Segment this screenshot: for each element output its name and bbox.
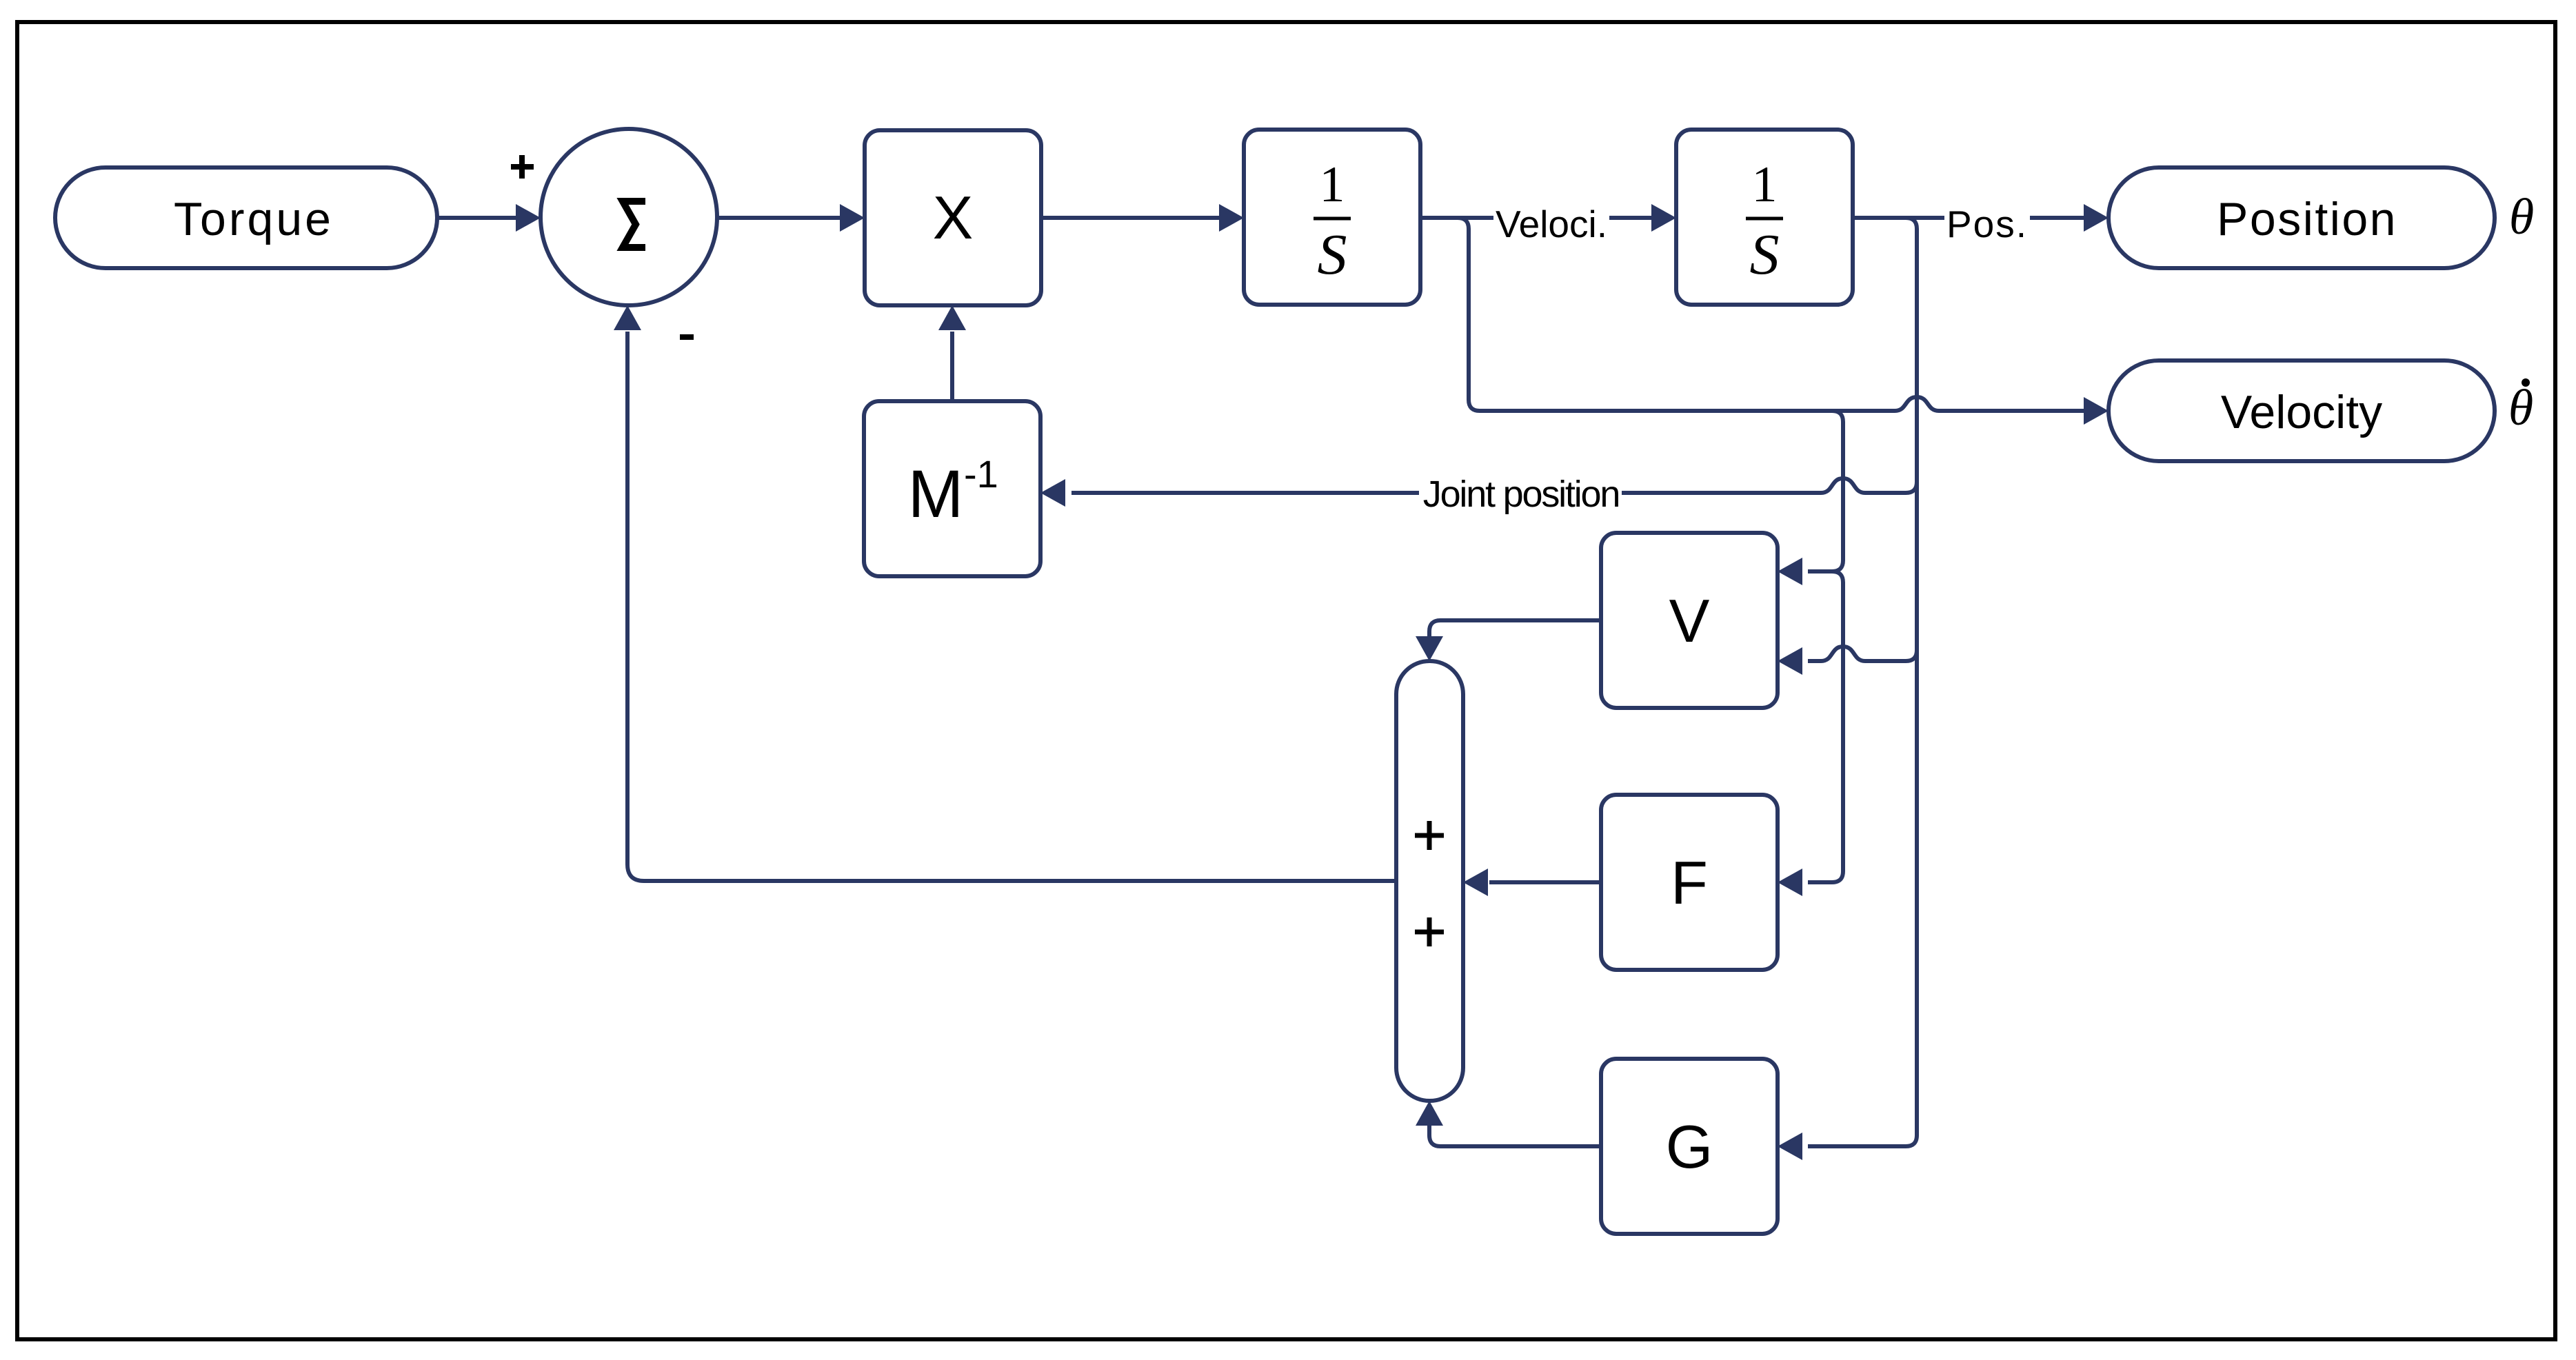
svg-text:S: S: [1750, 223, 1780, 287]
svg-text:S: S: [1318, 223, 1347, 287]
svg-text:G: G: [1666, 1113, 1713, 1181]
wire velocity vertical branch to V top input: [1778, 411, 1843, 585]
svg-text:1: 1: [1320, 156, 1345, 213]
block integrator 1: [1244, 130, 1420, 305]
svg-text:M: M: [908, 456, 964, 531]
svg-text:Pos.: Pos.: [1946, 203, 2028, 245]
block V: [1601, 533, 1778, 708]
wire integrator 1 to integrator 2 (velocity): [1420, 204, 1676, 232]
theta dot symbol at Velocity: [2508, 378, 2533, 436]
block X: [865, 130, 1041, 305]
wire F output to adder right: [1463, 869, 1601, 896]
label Veloci on wire: [1493, 203, 1609, 245]
terminator Torque: [55, 168, 437, 268]
wire integrator 2 to Position output: [1853, 204, 2109, 232]
block integrator 2: [1676, 130, 1853, 305]
adder stadium plus plus: [1396, 661, 1463, 1101]
theta symbol at Position: [2509, 189, 2534, 245]
svg-text:-1: -1: [964, 452, 998, 496]
terminator Velocity: [2109, 361, 2495, 461]
block G: [1601, 1059, 1778, 1234]
summing junction sigma: [541, 129, 717, 305]
label Pos on wire: [1944, 203, 2030, 245]
svg-text:V: V: [1669, 587, 1710, 655]
wire X to integrator 1: [1041, 204, 1244, 232]
wire joint position feedback to M inverse: [1040, 478, 1917, 507]
wire position branch down to G input: [1778, 218, 1917, 1160]
block F: [1601, 795, 1778, 970]
svg-text:Position: Position: [2217, 193, 2397, 245]
svg-text:θ: θ: [2509, 189, 2534, 245]
svg-text:Velocity: Velocity: [2221, 386, 2382, 438]
wire adder feedback to summing junction: [614, 305, 1396, 881]
label Joint position on wire: [1419, 474, 1622, 518]
svg-text:X: X: [933, 183, 974, 252]
svg-text:Joint position: Joint position: [1423, 474, 1619, 515]
svg-text:Veloci.: Veloci.: [1496, 203, 1607, 245]
wire velocity vertical continuation to F input: [1778, 571, 1843, 896]
wire Torque to summing junction: [437, 204, 541, 232]
svg-text:θ: θ: [2508, 380, 2533, 436]
wire M inverse up to X: [938, 305, 966, 401]
plus sign at summing junction: [511, 155, 534, 179]
minus sign at summing junction: [680, 334, 694, 340]
svg-text:F: F: [1671, 849, 1708, 917]
svg-text:Torque: Torque: [174, 193, 334, 245]
wire G output to adder bottom: [1416, 1101, 1601, 1146]
block M inverse: [864, 401, 1040, 576]
wire velocity branch down and right to Velocity output: [1420, 218, 2109, 425]
terminator Position: [2109, 168, 2495, 268]
svg-text:1: 1: [1752, 156, 1778, 213]
wire summing junction to X: [717, 204, 865, 232]
wire position branch to V bottom input: [1778, 647, 1917, 675]
wire V output to adder top: [1416, 620, 1601, 661]
